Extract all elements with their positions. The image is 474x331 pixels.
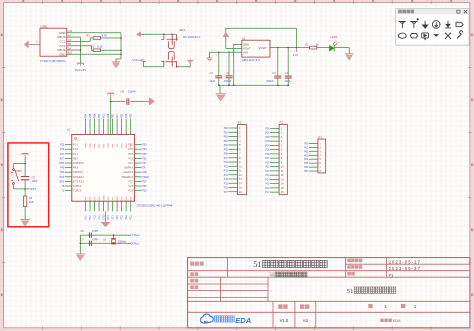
ground (crystal) [76, 254, 85, 261]
MCU bottom pin XT1 [112, 201, 114, 211]
header P3 pin 6 [309, 162, 318, 164]
svg-text:GND: GND [103, 195, 105, 200]
wire SW1 out to VCC+5V [144, 62, 164, 67]
wire R2 to GND trunk [101, 49, 121, 51]
header P2 pin 1 [270, 127, 279, 129]
power flag VCC+5V (MCU) [108, 93, 114, 96]
toolbar icon bubble [422, 33, 429, 40]
svg-text:C2: C2 [210, 71, 214, 75]
svg-text:P1: P1 [389, 272, 395, 277]
svg-text:P0.6: P0.6 [128, 157, 134, 160]
ground arrow (MCU) [101, 222, 110, 227]
svg-text:P00: P00 [304, 143, 309, 145]
svg-text:TXD/P3.1: TXD/P3.1 [73, 171, 84, 174]
selection box (reset circuit) [8, 143, 49, 227]
svg-text:P23: P23 [121, 215, 124, 220]
ground (reset) [20, 219, 29, 226]
MCU bottom pin P12 [89, 201, 91, 211]
svg-text:1: 1 [36, 41, 38, 44]
svg-text:P02: P02 [265, 137, 270, 139]
svg-text:P11: P11 [84, 215, 87, 220]
wire VBUS B4 row [67, 49, 81, 51]
svg-text:T1/P3.5: T1/P3.5 [73, 190, 82, 193]
MCU top pin P01 [112, 119, 114, 135]
header P1 pin 5 [229, 144, 238, 146]
svg-text:P25: P25 [142, 191, 147, 193]
header P3 pin 7 [309, 166, 318, 168]
svg-text:100nF: 100nF [224, 79, 232, 83]
power flag VCC+5V (USB) [77, 63, 83, 66]
header P2 pin 11 [270, 170, 279, 172]
svg-text:R3: R3 [305, 42, 309, 46]
wire VBUS trunk down to VCC+5V [80, 37, 82, 63]
wire VCC to junction [24, 157, 26, 177]
svg-text:DS-323GS-L1: DS-323GS-L1 [183, 35, 201, 39]
svg-text:P2.7: P2.7 [128, 180, 134, 183]
capacitor C1 100nF [228, 52, 230, 76]
svg-text:EA: EA [142, 167, 146, 170]
header P2 pin 6 [270, 149, 279, 151]
MCU right pin P0.4 [135, 148, 142, 150]
svg-text:P13: P13 [265, 175, 270, 177]
MCU right pin P0.7 [135, 162, 142, 164]
svg-text:P00: P00 [224, 128, 229, 130]
header P1 pin 13 [229, 178, 238, 180]
MCU right pin P0.5 [135, 153, 142, 155]
field 更新日期 [347, 265, 351, 269]
svg-text:U2: U2 [67, 127, 71, 131]
header P2 pin 10 [270, 166, 279, 168]
svg-text:LED1: LED1 [330, 35, 337, 39]
MCU left pin P1.7 [65, 153, 72, 155]
svg-text:VCC: VCC [102, 113, 105, 118]
svg-text:GND: GND [59, 52, 67, 56]
header P1 pin 1 [229, 127, 238, 129]
MCU left pin P1.5 [65, 144, 72, 146]
header P1 pin 7 [229, 153, 238, 155]
header P1 pin 12 [229, 174, 238, 176]
svg-text:P21: P21 [130, 215, 133, 220]
svg-text:R1: R1 [86, 33, 90, 37]
toolbar icon net oval [410, 34, 417, 38]
svg-text:P14: P14 [98, 215, 101, 220]
svg-text:P05: P05 [304, 163, 309, 165]
footer 嘉立创EDA red [380, 319, 383, 322]
MCU top pin P03 [130, 119, 132, 135]
junction C8 [110, 101, 112, 103]
svg-text:P1: P1 [238, 121, 242, 125]
junction SW1 b [171, 34, 173, 36]
MCU left pin TXD/P3.1 [65, 171, 72, 173]
header P2 pin 3 [270, 136, 279, 138]
svg-text:P17: P17 [60, 154, 65, 156]
svg-text:C4: C4 [285, 71, 289, 75]
title block grid [188, 258, 470, 328]
MCU left pin RST [65, 157, 72, 159]
svg-text:XT2: XT2 [107, 215, 110, 220]
toolbar icon vcc flag 2 [410, 18, 419, 28]
input rail end ground stub [209, 52, 211, 57]
svg-text:VCC+5V: VCC+5V [132, 58, 144, 62]
svg-text:P12: P12 [224, 171, 229, 173]
logo 嘉立创EDA [201, 314, 214, 323]
header P2 pin 16 [270, 191, 279, 193]
junction C2 top [218, 52, 220, 54]
svg-text:10uF: 10uF [284, 79, 290, 83]
switch SW1 body [161, 34, 178, 66]
toolbar icon ellipse [398, 33, 406, 38]
header P1 pin 15 [229, 187, 238, 189]
MCU bottom pin P22 [125, 201, 127, 211]
toolbar icon close X [445, 33, 451, 39]
svg-text:TXD: TXD [60, 172, 65, 174]
wire SW1 pole2 to ground [177, 64, 191, 67]
svg-text:P2.6: P2.6 [128, 185, 134, 188]
wire CC1 row to R2 [67, 46, 93, 51]
toolbar icon netport flag [456, 22, 463, 26]
toolbar title 浮动工具 [398, 10, 402, 14]
svg-text:1: 1 [385, 304, 388, 309]
wire VBUS A4 row [67, 36, 81, 38]
svg-text:TYPE-C-8P-DIP(A): TYPE-C-8P-DIP(A) [40, 59, 66, 63]
capacitor C6 47PF [89, 232, 91, 237]
svg-text:P03: P03 [265, 141, 270, 143]
MCU right pin P2.7 [135, 180, 142, 182]
MCU left pin P4.3 [65, 167, 72, 169]
MCU left pin INT0/P3.2 [65, 176, 72, 178]
svg-text:P03: P03 [224, 141, 229, 143]
svg-text:P03: P03 [142, 145, 147, 147]
svg-text:R4: R4 [29, 197, 33, 200]
MCU bottom pin P14 [98, 201, 100, 211]
svg-text:U3: U3 [103, 239, 107, 242]
svg-text:T0/P3.4: T0/P3.4 [73, 185, 82, 188]
MCU top pin NC [116, 119, 118, 135]
svg-text:P15: P15 [224, 183, 229, 185]
junction reset top [24, 163, 26, 165]
header P1 pin 11 [229, 170, 238, 172]
resistor R3 1K [310, 46, 317, 49]
header P2 pin 14 [270, 183, 279, 185]
svg-text:P1.7: P1.7 [73, 153, 79, 156]
header P1 pin 14 [229, 182, 238, 184]
svg-text:ALE: ALE [142, 171, 147, 174]
svg-text:P00: P00 [265, 128, 270, 130]
wire R1 to GND trunk [101, 37, 121, 39]
power arrow up (3.3V) [223, 32, 229, 37]
capacitor C2 10uF [218, 52, 220, 76]
svg-text:C8: C8 [121, 89, 125, 93]
header P2 pin 2 [270, 132, 279, 134]
svg-text:100nF: 100nF [128, 89, 136, 93]
svg-text:P04: P04 [142, 149, 147, 151]
svg-text:P10: P10 [224, 162, 229, 164]
svg-text:P05: P05 [142, 154, 147, 156]
header P1 pin 9 [229, 161, 238, 163]
svg-text:5.1K: 5.1K [102, 33, 108, 37]
svg-text:P12: P12 [89, 215, 92, 220]
svg-text:EDA: EDA [393, 319, 401, 323]
field 绘制 [190, 279, 194, 283]
svg-text:P02: P02 [121, 113, 124, 118]
MCU top pin P05 [89, 119, 91, 135]
capacitor C7 47PF [89, 241, 91, 246]
svg-text:P02: P02 [224, 137, 229, 139]
svg-text:ALE/P4.5: ALE/P4.5 [123, 171, 134, 174]
svg-text:47PF: 47PF [92, 229, 99, 233]
resistor R2 5.1K [93, 49, 100, 52]
svg-text:P15: P15 [265, 184, 270, 186]
svg-text:P0.4: P0.4 [128, 148, 134, 151]
toolbar icon vcc flag 1 [399, 22, 406, 29]
svg-text:5.1K: 5.1K [97, 45, 103, 49]
svg-text:P07: P07 [224, 158, 229, 160]
svg-text:P15: P15 [60, 145, 65, 147]
resistor R1 5.1K [93, 37, 100, 40]
svg-text:NC: NC [116, 114, 119, 118]
svg-text:XTAL2: XTAL2 [131, 233, 140, 237]
ground (SW1, bars) [187, 59, 193, 63]
svg-text:P07: P07 [98, 113, 101, 118]
toolbar icon gnd arrow [423, 21, 428, 28]
svg-text:P3: P3 [318, 135, 322, 139]
svg-text:P01: P01 [265, 133, 270, 135]
svg-text:SW2: SW2 [16, 170, 22, 173]
toolbar icon ground hook [445, 21, 451, 28]
svg-text:EDA: EDA [235, 316, 251, 325]
power flag VCC+5V (reset) [22, 154, 28, 157]
svg-text:P2: P2 [280, 121, 284, 125]
MCU left pin RXD/P3.0 [65, 162, 72, 164]
top rail 3.3V loop [226, 28, 297, 48]
header P2 pin 8 [270, 157, 279, 159]
svg-text:P05: P05 [89, 113, 92, 118]
svg-text:VCC: VCC [103, 143, 105, 148]
header P2 pin 5 [270, 144, 279, 146]
svg-text:VOUT: VOUT [258, 46, 267, 50]
MCU right pin P0.6 [135, 157, 142, 159]
sheet margin strips [0, 0, 474, 3]
svg-text:C3: C3 [272, 71, 276, 75]
floating toolbar panel [396, 8, 469, 45]
svg-text:P01: P01 [112, 113, 115, 118]
ground drop [219, 85, 221, 93]
svg-text:2023-05-27: 2023-05-27 [389, 266, 421, 271]
header P1 pin 3 [229, 136, 238, 138]
svg-text:P05: P05 [265, 150, 270, 152]
ground (regulator) [216, 94, 226, 101]
svg-text:P04: P04 [224, 145, 229, 147]
header P2 pin 15 [270, 187, 279, 189]
header P3 pin 4 [309, 154, 318, 156]
svg-text:RXD: RXD [59, 163, 64, 165]
MCU right pin ALE/P4.5 [135, 171, 142, 173]
MCU right pin P2.6 [135, 185, 142, 187]
svg-text:P07: P07 [265, 158, 270, 160]
svg-text:P10: P10 [125, 113, 128, 118]
svg-text:PSEN: PSEN [142, 177, 149, 179]
svg-text:3.3V: 3.3V [293, 53, 299, 57]
MCU right pin P2.5 [135, 190, 142, 192]
svg-text:PSEN/P4.4: PSEN/P4.4 [121, 176, 134, 179]
junction reset mid / RST wire [24, 188, 26, 190]
capacitor C3 100nF [277, 48, 279, 77]
svg-text:P01: P01 [304, 147, 309, 149]
svg-text:P0.5: P0.5 [128, 153, 134, 156]
MCU bottom pin P13 [94, 201, 96, 211]
MCU left pin P1.6 [65, 148, 72, 150]
GND trunk vertical [120, 33, 122, 59]
svg-text:P13: P13 [224, 175, 229, 177]
MCU right pin PSEN/P4.4 [135, 176, 142, 178]
wire GND B12 row [67, 53, 121, 55]
wire XTAL2 row [80, 234, 131, 236]
svg-text:RST: RST [60, 158, 65, 160]
svg-text:EA/P4.6: EA/P4.6 [125, 167, 134, 170]
svg-text:P0.7: P0.7 [128, 162, 134, 165]
header P3 pin 2 [309, 146, 318, 148]
MCU bottom pin P24 [116, 201, 118, 211]
svg-text:P11: P11 [266, 167, 271, 169]
svg-text:RST: RST [73, 157, 78, 160]
field 图页 [347, 272, 351, 276]
svg-text:P4.3: P4.3 [73, 167, 79, 170]
header P2 pin 12 [270, 174, 279, 176]
wire USB port to connector [28, 43, 40, 45]
junction VBUS [80, 49, 82, 51]
svg-text:P06: P06 [265, 154, 270, 156]
svg-text:INT1: INT1 [59, 181, 65, 183]
MCU bottom pin GND [103, 201, 105, 211]
svg-text:C1: C1 [226, 71, 230, 75]
svg-text:P27: P27 [142, 181, 147, 183]
svg-text:P16: P16 [224, 188, 229, 190]
svg-text:2023-05-27: 2023-05-27 [389, 259, 421, 264]
svg-text:P17: P17 [224, 192, 229, 194]
header P2 pin 7 [270, 153, 279, 155]
MCU left pin T0/P3.4 [65, 185, 72, 187]
MCU bottom pin P23 [121, 201, 123, 211]
svg-text:P17: P17 [265, 192, 270, 194]
wire CC2 row to R1 [67, 38, 93, 41]
netport arrow USB CN [24, 41, 28, 49]
toolbar minimize [457, 10, 460, 13]
capacitor C8 100nF [127, 98, 129, 105]
header P2 pin 13 [270, 178, 279, 180]
wire C8 row [111, 101, 126, 103]
MCU top pin P06 [94, 119, 96, 135]
svg-text:P1.6: P1.6 [73, 148, 79, 151]
svg-text:AMS1117-3.3: AMS1117-3.3 [242, 58, 260, 62]
MCU top pin P07 [98, 119, 100, 135]
svg-text:RST: RST [31, 188, 36, 191]
svg-text:C6: C6 [80, 229, 84, 233]
MCU top pin P04 [85, 119, 87, 135]
netport arrow 5V in [136, 32, 140, 37]
field 板子 [190, 272, 194, 276]
svg-text:P03: P03 [130, 113, 133, 118]
svg-text:P06: P06 [142, 158, 147, 160]
header P1 pin 10 [229, 165, 238, 167]
field 版本 [278, 304, 282, 308]
svg-text:P06: P06 [224, 154, 229, 156]
wire GND A12 row [67, 32, 121, 34]
junction GND B12 [120, 54, 122, 56]
svg-text:VIN: VIN [243, 51, 248, 55]
header P2 pin 9 [270, 161, 279, 163]
svg-text:P02: P02 [304, 151, 309, 153]
ground (input rail, bars) [207, 57, 213, 61]
svg-text:P16: P16 [60, 149, 65, 151]
svg-text:P07: P07 [142, 163, 147, 165]
svg-text:T1: T1 [62, 191, 65, 193]
svg-text:1: 1 [414, 304, 417, 309]
wire crystal left to ground [79, 235, 81, 254]
junction R1 out [120, 37, 122, 39]
netport arrow (C8 net) [146, 101, 149, 103]
MCU top pin P00 [107, 119, 109, 135]
svg-text:51: 51 [269, 273, 274, 278]
toolbar close [464, 10, 467, 13]
svg-text:XTAL1: XTAL1 [131, 241, 140, 245]
svg-text:1K: 1K [316, 42, 319, 46]
wire to SW2 [14, 164, 26, 169]
MCU bottom pin P21 [130, 201, 132, 211]
svg-text:P2.5: P2.5 [128, 190, 134, 193]
svg-text:P01: P01 [224, 132, 229, 134]
header P1 pin 16 [229, 191, 238, 193]
svg-text:P03: P03 [304, 155, 309, 157]
wire U1 VOUT left pin [226, 48, 242, 50]
MCU bottom pin XT2 [107, 201, 109, 211]
MCU right pin EA/P4.6 [135, 167, 142, 169]
junction SW1 a [163, 34, 165, 36]
field 原理图 [190, 262, 194, 266]
svg-text:10UF: 10UF [32, 180, 39, 183]
svg-text:P00: P00 [107, 113, 110, 118]
toolbar icon pen [457, 31, 463, 39]
header P1 pin 8 [229, 157, 238, 159]
junction R2 out [120, 49, 122, 51]
MCU left pin INT1/P3.3 [65, 180, 72, 182]
svg-text:RXD/P3.0: RXD/P3.0 [73, 162, 84, 165]
svg-text:T0: T0 [62, 186, 65, 188]
wire LED to ground [335, 48, 350, 54]
svg-text:P14: P14 [265, 179, 270, 181]
ground (LED) [345, 54, 353, 60]
svg-text:10K: 10K [29, 201, 34, 204]
capacitor C4 10uF [287, 48, 289, 77]
svg-text:INT1/P3.3: INT1/P3.3 [73, 180, 84, 183]
wire U1 GND pin down [234, 44, 242, 85]
wire XTAL1 row [80, 242, 131, 244]
bottom GND rail [219, 84, 288, 86]
MCU top pin P10 [125, 119, 127, 135]
svg-text:P06: P06 [304, 167, 309, 169]
MCU bottom pin P11 [85, 201, 87, 211]
svg-text:P22: P22 [125, 215, 128, 220]
MCU top pin P02 [121, 119, 123, 135]
svg-text:SW1: SW1 [179, 28, 186, 32]
svg-text:51: 51 [253, 260, 261, 269]
header P2 pin 4 [270, 140, 279, 142]
toolbar icon power circle [432, 21, 440, 29]
svg-text:47PF: 47PF [92, 237, 99, 241]
junction C1 top [228, 52, 230, 54]
header P3 pin 1 [309, 142, 318, 144]
svg-text:XT1: XT1 [112, 215, 115, 220]
svg-text:P16: P16 [265, 188, 270, 190]
